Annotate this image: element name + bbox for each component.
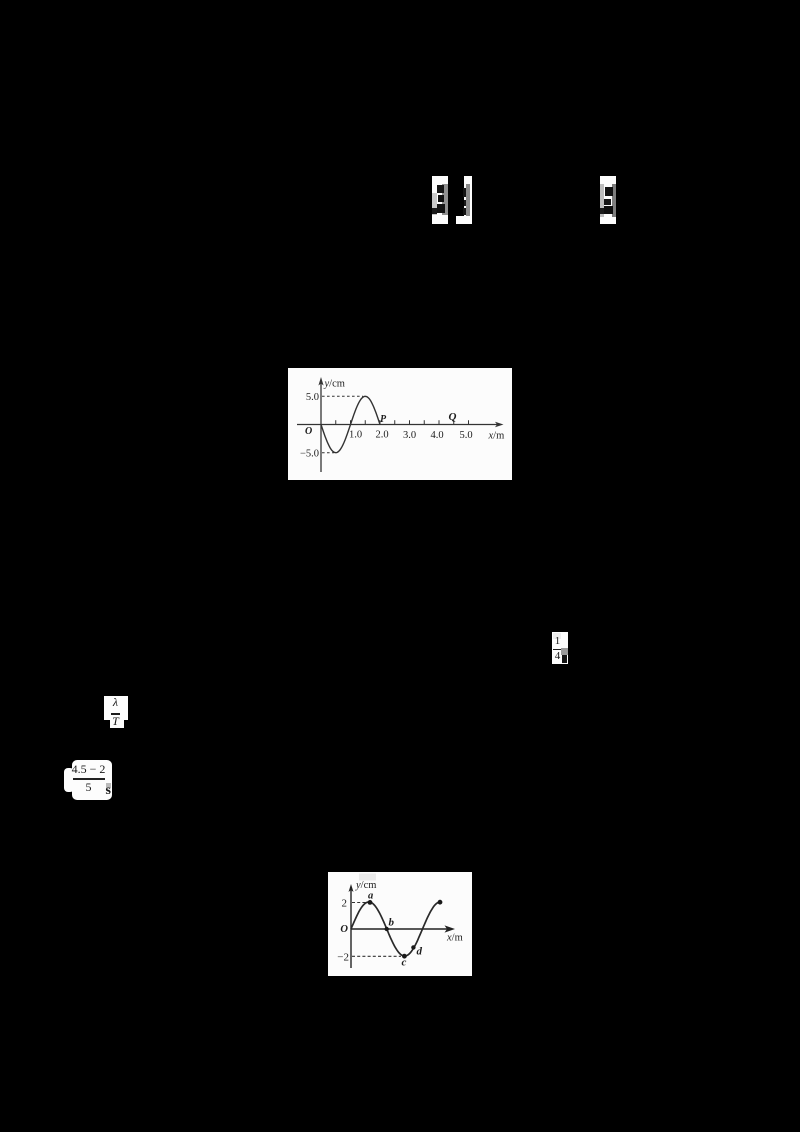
svg-text:a: a [368, 891, 373, 902]
svg-text:b: b [389, 917, 395, 929]
y axis [350, 888, 352, 968]
svg-text:4.0: 4.0 [430, 430, 443, 441]
y axis [320, 381, 322, 472]
svg-text:1.0: 1.0 [349, 430, 362, 441]
dashed line to -5.0 trough [322, 452, 334, 454]
figure 2: wave graph with points a b c d [328, 872, 472, 976]
x axis [297, 424, 500, 426]
dashed line to -2 [352, 955, 401, 957]
svg-text:2.0: 2.0 [375, 430, 388, 441]
svg-text:−5.0: −5.0 [300, 449, 319, 460]
sine wave curve [351, 902, 440, 956]
svg-text:5.0: 5.0 [306, 392, 319, 403]
svg-text:2: 2 [342, 898, 348, 910]
point b [385, 927, 389, 931]
inline formula fragment 1 [432, 176, 448, 224]
svg-text:3.0: 3.0 [403, 430, 416, 441]
svg-text:O: O [305, 426, 312, 437]
svg-text:Q: Q [449, 411, 457, 423]
svg-text:x/m: x/m [446, 933, 463, 944]
svg-text:d: d [417, 946, 423, 958]
fraction lambda/T fragment [104, 696, 128, 720]
svg-text:x/m: x/m [488, 431, 505, 442]
dashed line to +2 [352, 902, 367, 904]
svg-text:5.0: 5.0 [459, 430, 472, 441]
inline formula fragment 2 [464, 176, 472, 224]
figure 1: wave graph y/cm vs x/m [288, 368, 512, 480]
fraction 1/4 fragment [552, 632, 568, 664]
svg-text:y/cm: y/cm [355, 880, 376, 891]
svg-text:−2: −2 [337, 952, 349, 964]
svg-text:P: P [380, 414, 387, 425]
sine wave curve [321, 396, 380, 452]
svg-text:c: c [402, 957, 407, 969]
ticks every 0.5 m [336, 420, 469, 424]
faint smudge above y/cm [359, 874, 376, 881]
x axis [351, 928, 450, 930]
svg-text:y/cm: y/cm [324, 379, 345, 390]
end point [438, 900, 443, 905]
point d [411, 945, 415, 949]
point a [368, 900, 373, 905]
dashed line to +5.0 peak [322, 395, 363, 397]
svg-text:O: O [340, 924, 348, 935]
point c [402, 954, 407, 959]
fraction (4.5-2)/5 fragment [72, 760, 112, 800]
inline formula fragment 3 [600, 176, 616, 224]
